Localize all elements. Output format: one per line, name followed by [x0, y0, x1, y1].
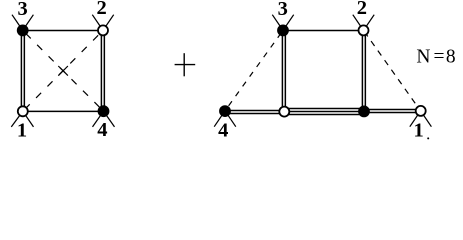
external legs node 3 — [12, 15, 33, 31]
wire top edge 3-2 — [283, 30, 364, 32]
wire left double edge 3-1 — [21, 30, 24, 111]
svg-text:3: 3 — [278, 0, 288, 20]
wire right double edge 2 to mid-filled — [362, 30, 365, 111]
node 2 open vertex — [98, 25, 108, 35]
external legs node 1 — [410, 111, 432, 127]
plus sign — [175, 53, 196, 76]
external legs node 4 — [214, 111, 236, 127]
wire bottom double edge 4 to mid-open — [225, 111, 284, 114]
wire dashed diagonal 3-4 — [23, 30, 104, 111]
svg-text:=: = — [434, 47, 445, 68]
wire dashed edge 3-4 — [225, 30, 283, 110]
external legs node 4 — [93, 111, 115, 127]
svg-text:4: 4 — [97, 119, 107, 141]
period dot — [427, 137, 429, 139]
wire dashed diagonal 2-1 — [23, 30, 103, 111]
wire left double edge 3 to mid-open — [282, 30, 285, 111]
external legs node 2 — [92, 15, 113, 31]
wire bottom double edge mid-filled to 1 — [364, 110, 421, 113]
wire bottom edge 1-4 — [23, 110, 104, 112]
node mid-open vertex — [279, 107, 289, 117]
wire bottom triple edge mid-open to mid-filled — [284, 109, 364, 115]
external legs node 1 — [11, 111, 33, 127]
wire right double edge 2-4 — [101, 30, 104, 111]
left graph: square diagram — [11, 15, 114, 127]
node 1 open vertex — [18, 106, 28, 116]
node mid-filled vertex — [359, 106, 369, 116]
external legs node 2 — [353, 15, 374, 31]
wire dashed edge 2-1 — [364, 30, 421, 111]
wire top edge 3-2 — [23, 30, 103, 32]
label N = 8 — [416, 47, 455, 68]
svg-text:N: N — [416, 47, 430, 68]
svg-text:2: 2 — [96, 0, 106, 19]
svg-text:3: 3 — [17, 0, 27, 20]
wire center cross X — [58, 66, 68, 76]
svg-text:8: 8 — [446, 47, 456, 68]
svg-text:1: 1 — [17, 119, 27, 141]
node 2 open vertex — [359, 25, 369, 35]
svg-text:2: 2 — [357, 0, 367, 19]
svg-text:1: 1 — [413, 119, 423, 141]
node 3 filled vertex — [278, 25, 288, 35]
node 1 open vertex — [416, 106, 426, 116]
node 4 filled vertex — [220, 106, 230, 116]
external legs node 3 — [272, 15, 293, 31]
node 3 filled vertex — [18, 25, 28, 35]
svg-text:4: 4 — [218, 119, 228, 141]
node 4 filled vertex — [99, 106, 109, 116]
right graph: trapezoid diagram — [214, 15, 431, 127]
